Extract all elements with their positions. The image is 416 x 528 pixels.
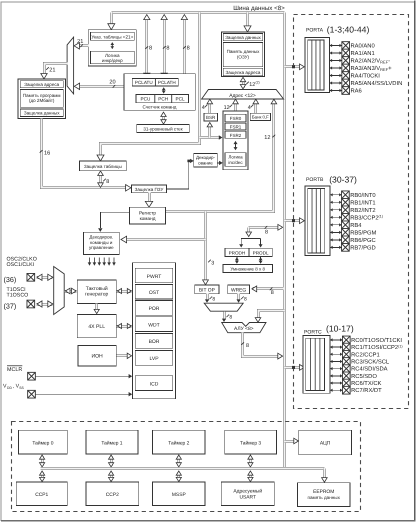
wire peripheral bus to row2 box 2 [177,473,180,480]
svg-text:Таймер 2: Таймер 2 [168,441,189,447]
svg-text:RC4/SDI/SDA: RC4/SDI/SDA [351,366,388,373]
svg-text:ование: ование [198,160,213,165]
peripherals dashed border [12,422,361,512]
svg-text:RA1/AN1: RA1/AN1 [351,50,375,57]
svg-text:RC1/T1OSI/CCP2(1): RC1/T1OSI/CCP2(1) [351,344,402,351]
svg-text:Защелка данных: Защелка данных [24,111,60,116]
svg-text:21: 21 [49,68,55,74]
svg-text:FSR2: FSR2 [230,133,242,138]
svg-text:ICD: ICD [150,381,159,387]
wire ALU result to data bus [243,333,281,357]
wire 12-bit RAM address [242,80,245,88]
svg-text:АЛУ <8>: АЛУ <8> [234,326,254,332]
svg-text:Защелка адреса: Защелка адреса [226,70,261,75]
wire peripheral data bus [41,467,325,470]
wire OSC pin to clock mux [37,276,53,279]
svg-text:RA4/T0CKI: RA4/T0CKI [351,73,381,80]
block program counter (Счетчик команд) [124,74,195,111]
block CCP2 [86,482,139,506]
ALU input mux trapezoid [204,303,243,311]
pin RC5/SDO [330,374,343,377]
svg-text:инкр/декр: инкр/декр [102,58,123,63]
node junction dot [187,160,190,163]
svg-text:RB5/PGM: RB5/PGM [350,229,376,236]
block 31-level stack (31-уровневый стек) [137,125,190,133]
block decode (Декодирование) [194,154,218,167]
pin RC3/SCK/SCL [330,360,343,363]
svg-text:21: 21 [77,39,83,45]
pin RC4/SDI/SDA [330,367,343,370]
pin RB3/CCP2<tspan font-size="3.6" dy="-1.8">(1)</tspan> [330,216,342,219]
node control arrows below decode [88,258,116,266]
block FSR inc/dec logic (Логика inc/dec) [225,153,246,167]
block program memory (Память программ) [20,90,63,108]
svg-text:(до 2Мбайт): (до 2Мбайт) [29,98,55,103]
block table pointer (Указ. таблицы <21>) [88,30,136,66]
svg-text:Защелка данных: Защелка данных [225,35,261,40]
block bank register (Банк 0,F) [250,113,270,120]
wire peripheral bus to row2 box 0 [41,473,44,480]
pin RA4/T0CKI [330,74,343,77]
wire ROM latch to decode block [167,161,193,189]
svg-text:FSR1: FSR1 [230,125,242,130]
svg-text:RB2/INT2: RB2/INT2 [350,207,375,214]
svg-text:(37): (37) [4,302,17,311]
node arrow FSR2 to inc/dec [235,142,237,150]
wire branch to instruction decode [127,238,206,241]
svg-text:31-уровневый стек: 31-уровневый стек [143,127,182,132]
block table latch (Защелка таблицы) [80,161,127,171]
wire WREG to data bus [253,287,284,290]
block PCLATU PCLATH [132,78,178,86]
svg-text:память данных: память данных [308,495,341,500]
wire data bus right vertical (main bus) [283,13,286,469]
block FSR2 [225,131,246,138]
wire T1OSC pin to clock mux [37,303,53,306]
pin RA6 [330,89,343,92]
block RAM address latch (Защелка адреса) [223,68,263,75]
svg-text:RB7/PGD: RB7/PGD [350,244,375,251]
pin RC1/T1OSI/CCP2<tspan font-size="3.6" dy="-1.8">(1)</tspan> [330,345,343,348]
pin RA5/AN4/<tspan text-decoration="overline">SS</tspan>/LVDIN [330,81,343,84]
block EEPROM data memory [297,483,350,507]
pin RA2/AN2/V<tspan font-size="4.0" dy="1.1">REF</tspan><tspan font-size="6.0" dy="-1.1">-</tspan> [330,59,343,62]
wire data bus left vertical branch [101,13,200,159]
svg-text:PCLATU: PCLATU [135,80,153,85]
svg-text:8: 8 [212,297,215,303]
pin RA3/AN3/V<tspan font-size="4.0" dy="1.1">REF</tspan><tspan font-size="6.0" dy="-1.1">+</tspan> [330,66,343,69]
wire Vdd to reset block [35,393,131,395]
svg-text:BOR: BOR [149,339,160,345]
block MSSP [153,482,205,506]
ports dashed border [294,15,409,409]
node junction dot PORTC [292,366,295,369]
block WDT [135,317,173,332]
ALU trapezoid (АЛУ <8>) [222,323,266,333]
svg-text:LVP: LVP [149,356,159,362]
svg-text:20: 20 [109,79,115,85]
svg-text:8: 8 [246,343,249,349]
wire 8-bit bus to PCLATU [145,17,148,76]
wire drop to data RAM latch [246,13,249,30]
svg-text:Таймер 0: Таймер 0 [32,441,53,447]
wire MCLR to reset block [35,375,131,377]
wire 8-bit bus to PCL [183,17,186,92]
svg-text:Защелка таблицы: Защелка таблицы [84,164,122,169]
svg-text:Указ. таблицы <21>: Указ. таблицы <21> [91,35,133,40]
node arrow PCLATH to PCH [163,87,165,93]
block PRODL [249,248,272,256]
svg-text:RC3/SCK/SCL: RC3/SCK/SCL [351,358,390,365]
driver trapezoid (address bus driver) [67,37,74,94]
svg-text:16: 16 [44,151,50,157]
svg-text:Адрес <12>: Адрес <12> [229,93,256,99]
wire peripheral bus to row2 box 3 [249,473,252,480]
svg-text:PCU: PCU [140,97,151,102]
svg-text:12: 12 [249,82,255,88]
pin RB2/INT2 [330,208,342,211]
wire clock generator to PLL [95,304,98,312]
svg-text:12: 12 [224,105,230,111]
wire PLL to reset block [117,325,132,328]
pin RB6/PGC [330,238,342,241]
pin RB4 [330,223,342,226]
block instruction register (Регистр команд) [130,207,166,224]
block Таймер 2 [153,430,205,454]
node arrow into BITOP [203,280,209,285]
block PORTB drivers [305,186,330,256]
svg-text:POR: POR [149,306,160,312]
svg-text:Счетчик команд: Счетчик команд [143,104,177,109]
block instruction decode and control (Декодер команд и управление) [84,232,120,254]
svg-text:команд: команд [140,216,156,221]
svg-text:Банк 0,F: Банк 0,F [252,115,269,120]
svg-text:RC7/RX/DT: RC7/RX/DT [351,387,382,394]
wire data bus top horizontal [112,11,285,14]
svg-text:PCLATH: PCLATH [158,80,176,85]
wire peripheral bus to EEPROM [323,469,326,480]
wire IR to instruction decode [100,212,129,228]
svg-text:FSR0: FSR0 [230,116,242,121]
svg-text:OSC1/CLKI: OSC1/CLKI [7,262,35,268]
wire drop to table pointer [110,13,113,28]
svg-text:управление: управление [89,245,114,250]
block FSR0 [225,114,246,121]
svg-text:8: 8 [229,315,232,321]
pin RA1/AN1 [330,51,343,54]
wire 8-bit table latch to 16-bit path [99,174,102,185]
svg-text:MSSP: MSSP [172,492,186,498]
wire decode to FSR inc/dec logic [217,162,222,164]
wire PRODL to multiplier [260,257,262,263]
block FSR1 [225,123,246,130]
block clock generator (Тактовый генератор) [77,280,116,303]
svg-text:(10-17): (10-17) [326,324,354,334]
svg-text:RB0/INT0: RB0/INT0 [350,192,375,199]
wire 8-bit multiplier output to data bus [249,226,282,229]
wire PRODH to multiplier [236,257,238,263]
block address latch (Защелка адреса) [20,81,63,88]
wire mux to ALU [223,312,226,320]
svg-text:RB3/CCP2(1): RB3/CCP2(1) [350,214,383,221]
svg-text:PRODL: PRODL [253,250,269,255]
block program memory column [18,79,66,118]
block WREG [228,285,250,294]
wire data bus to ALU [259,311,285,320]
svg-text:inc/dec: inc/dec [228,160,243,165]
block BSR register [204,113,218,121]
svg-text:DD: DD [7,386,12,390]
wire Bank to address mux [254,102,257,114]
svg-text:8: 8 [166,46,169,52]
block Таймер 1 [86,430,138,454]
wire Таймер 2 to peripheral bus [177,457,180,466]
block OST [135,284,173,299]
pin RC0/T1OSO/T1CKI [330,338,343,341]
svg-text:CCP1: CCP1 [35,492,48,498]
block USART [221,482,274,506]
block multiplier (Умножение 8 x 8) [223,264,273,272]
wire data bus to PORTC [285,366,303,369]
wire left bus branch to BSR and FSR [200,136,221,139]
wire data bus to PORTB [285,219,303,222]
wire WREG to ALU mux [237,294,240,301]
svg-text:RA5/AN4/SS/LVDIN: RA5/AN4/SS/LVDIN [351,80,403,87]
svg-text:PWRT: PWRT [147,274,162,280]
svg-text:SS: SS [19,386,24,390]
clock mux trapezoid [54,267,64,315]
svg-text:PRODH: PRODH [229,250,246,255]
pin RB1/INT1 [330,201,342,204]
pin RA0/AN0 [330,44,343,47]
svg-text:RB6/PGC: RB6/PGC [350,237,375,244]
svg-text:Таймер 1: Таймер 1 [101,441,122,447]
svg-text:RC5/SDO: RC5/SDO [351,373,377,380]
svg-text:RB4: RB4 [350,223,362,229]
block voltage reference (ИОН) [78,346,116,366]
block 4X PLL [77,314,116,337]
wire 21-bit driver to program memory address latch [45,64,68,77]
wire FSR to address mux [234,102,237,111]
svg-text:8: 8 [149,46,152,52]
block ICD [135,376,173,391]
svg-text:4X PLL: 4X PLL [88,324,105,330]
svg-text:4: 4 [202,105,205,111]
svg-text:4: 4 [248,105,251,111]
wire BITOP to ALU mux [206,294,209,301]
svg-text:8: 8 [271,290,274,296]
svg-text:(1-3;40-44): (1-3;40-44) [327,25,370,35]
block LVP [135,351,173,366]
svg-text:Защелка ПЗУ: Защелка ПЗУ [135,187,164,192]
wire 16-bit program data to ROM latch [42,119,129,188]
block BOR [135,334,173,349]
node junction dot PORTB [292,219,295,222]
svg-text:PORTC: PORTC [304,330,322,336]
wire 20-bit PC to driver [77,85,124,88]
pin RB5/PGM [330,231,342,234]
svg-text:BIT OP: BIT OP [199,288,215,294]
svg-text:Умножение 8 x 8: Умножение 8 x 8 [230,267,265,272]
svg-text:T1OSCO: T1OSCO [7,292,29,298]
wire data bus to PORTA [285,65,303,68]
block PCU PCH PCL [136,94,189,102]
svg-text:(2): (2) [256,81,260,85]
svg-text:8: 8 [244,297,247,303]
block Таймер 3 [225,430,277,454]
block RAM data latch (Защелка данных) [223,34,263,41]
block reset/support column (PWRT..ICD) [133,263,176,399]
address mux trapezoid (Адрес <12>) [202,90,284,100]
svg-text:RC6/TX/CK: RC6/TX/CK [351,380,381,387]
svg-text:RA0/AN0: RA0/AN0 [351,43,375,50]
wire PROD connect bar [240,239,242,245]
wire ROM latch to instruction register [148,193,151,205]
svg-text:ИОН: ИОН [91,354,103,360]
wire Таймер 1 to peripheral bus [110,457,113,466]
svg-text:BSR: BSR [206,115,216,120]
svg-text:WDT: WDT [148,322,159,328]
wire ИОН to reset block [117,354,130,357]
wire 8-bit bus to PCLATH [163,17,166,76]
svg-text:АЦП: АЦП [320,441,331,447]
node junction dot PORTA [292,65,295,68]
node arrow to PROD registers [247,228,250,234]
svg-text:RA6: RA6 [351,88,362,95]
wire BSR to address mux [208,102,211,114]
wire IR branch down to decode and BITOP [204,212,207,283]
wire Таймер 3 to peripheral bus [249,457,252,466]
svg-text:Защелка адреса: Защелка адреса [24,82,59,87]
node arrow inside table pointer [111,43,113,49]
block increment logic (Логика инкр/декр) [90,51,134,64]
svg-text:PCL: PCL [176,97,186,102]
wire PC to stack [162,114,165,123]
pin RB0/INT0 [330,193,342,196]
pin Vdd Vss [28,390,36,398]
block ROM latch (Защелка ПЗУ) [132,185,167,193]
pin RC2/CCP1 [330,353,343,356]
block CCP1 [16,482,67,506]
svg-text:PORTB: PORTB [306,177,324,183]
block BITOP [195,285,219,294]
svg-text:3: 3 [211,261,214,267]
svg-text:RB1/INT1: RB1/INT1 [350,199,375,206]
svg-text:(30-37): (30-37) [329,175,357,185]
block POR [135,301,173,316]
block FSR stack outer [223,111,248,170]
wire 12-bit IR to address mux [166,102,274,212]
block PRODH [225,248,249,256]
wire riser to BSR [208,125,211,138]
svg-text:Регистр: Регистр [139,210,156,215]
wire peripheral bus to row2 box 1 [110,473,113,480]
wire Таймер 0 to peripheral bus [41,457,44,466]
pin RC7/RX/DT [330,389,343,392]
svg-text:Адресуемый: Адресуемый [233,489,262,495]
svg-text:RC2/CCP1: RC2/CCP1 [351,351,380,358]
svg-text:RC0/T1OSO/T1CKI: RC0/T1OSO/T1CKI [351,337,402,344]
pin RC6/TX/CK [330,381,343,384]
wire 21-bit from table pointer to driver [77,44,89,47]
block data RAM column [221,32,264,77]
svg-text:8: 8 [265,230,268,236]
svg-text:WREG: WREG [231,288,246,294]
svg-text:генератор: генератор [85,292,109,298]
svg-text:12: 12 [264,135,270,141]
svg-text:(ОЗУ): (ОЗУ) [237,55,250,60]
wire data bus to ADC [285,440,297,443]
block Таймер 0 [19,430,68,454]
svg-text:CCP2: CCP2 [106,492,119,498]
svg-text:Таймер 3: Таймер 3 [240,441,261,447]
svg-text:USART: USART [240,495,257,501]
block PORTC drivers [303,336,330,394]
block PWRT [135,268,173,283]
svg-text:PORTA: PORTA [306,28,324,34]
svg-text:Память данных: Память данных [227,49,261,54]
wire clock generator to reset block [117,290,132,293]
block ADC (АЦП) [299,430,352,454]
pin RB7/PGD [330,246,342,249]
block data memory (Память данных ОЗУ) [223,42,263,66]
pin MCLR [28,372,36,380]
pin OSC crystal [27,273,35,281]
svg-text:OST: OST [149,290,159,296]
svg-text:(36): (36) [4,275,17,284]
svg-text:PCH: PCH [158,97,168,102]
svg-text:8: 8 [106,179,109,185]
svg-text:MCLR: MCLR [7,367,22,373]
wire clock mux to clock generator [65,290,77,293]
pin T1OSC crystal [27,300,35,308]
node arrow into table latch [97,155,104,161]
svg-text:8: 8 [187,46,190,52]
block PORTA drivers [305,38,330,93]
block data latch (Защелка данных) [20,109,63,117]
